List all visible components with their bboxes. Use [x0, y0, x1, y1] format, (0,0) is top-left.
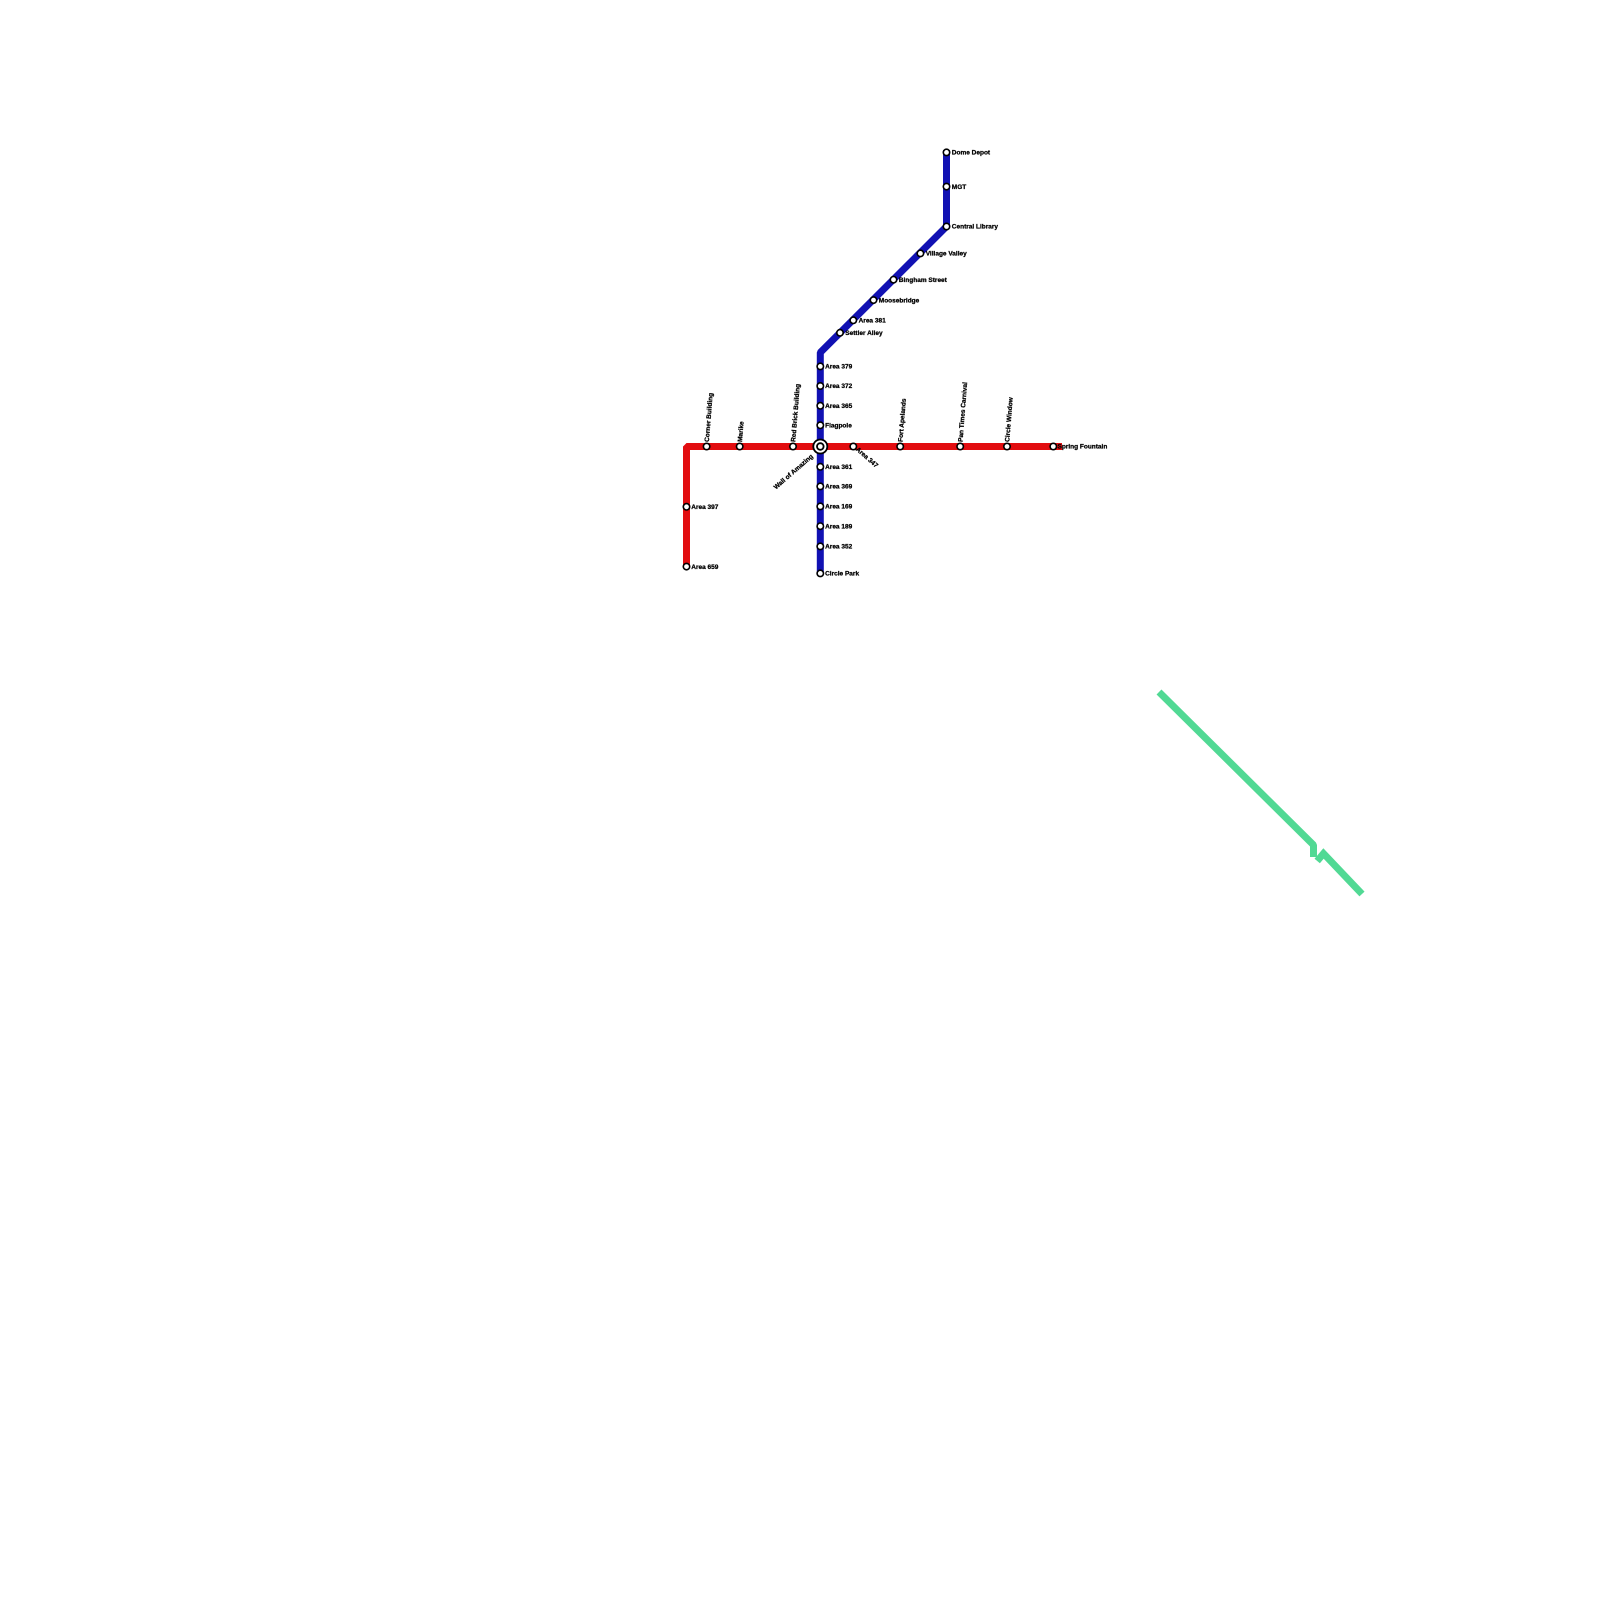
svg-text:Area 372: Area 372: [825, 383, 852, 390]
labels: [691, 150, 1107, 578]
interchange bullseye: [812, 439, 828, 455]
red stations: [703, 443, 709, 449]
svg-text:Area 659: Area 659: [691, 564, 718, 571]
blue line: [820, 150, 946, 573]
red line: [687, 447, 1063, 567]
svg-text:Circle Park: Circle Park: [825, 571, 859, 578]
svg-text:Central Library: Central Library: [952, 224, 999, 231]
svg-text:Dome Depot: Dome Depot: [952, 150, 991, 157]
svg-text:Area 189: Area 189: [825, 523, 852, 530]
svg-text:Flagpole: Flagpole: [825, 423, 852, 430]
blue stations: [943, 149, 949, 155]
svg-text:Area 379: Area 379: [825, 364, 852, 371]
svg-text:Settler Alley: Settler Alley: [845, 330, 883, 337]
svg-text:Area 361: Area 361: [825, 464, 852, 471]
svg-text:Area 397: Area 397: [691, 504, 718, 511]
green line: [1159, 692, 1362, 894]
svg-text:Area 169: Area 169: [825, 504, 852, 511]
svg-text:Area 381: Area 381: [859, 318, 886, 325]
svg-text:Area 365: Area 365: [825, 403, 852, 410]
svg-text:Area 369: Area 369: [825, 484, 852, 491]
svg-text:Bingham Street: Bingham Street: [899, 277, 948, 284]
svg-text:Area 352: Area 352: [825, 544, 852, 551]
svg-text:Village Valley: Village Valley: [926, 251, 967, 258]
svg-text:Spring Fountain: Spring Fountain: [1058, 444, 1108, 451]
stations: white circles with black ring: [683, 149, 1056, 576]
svg-text:Moosebridge: Moosebridge: [879, 297, 920, 304]
svg-text:MGT: MGT: [952, 184, 966, 191]
